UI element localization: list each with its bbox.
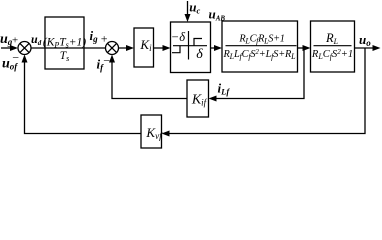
summing junction J1	[18, 42, 31, 55]
wire inner current feedback tap	[215, 48, 304, 99]
current feedback gain block K_if	[187, 80, 209, 117]
summing junction J2	[106, 42, 119, 55]
svg-text:RLCfS2+1: RLCfS2+1	[311, 48, 353, 61]
label minus at J1	[12, 51, 20, 65]
svg-text:Kif: Kif	[191, 93, 208, 108]
svg-text:−δ: −δ	[171, 30, 185, 44]
svg-text:(KPTs+1): (KPTs+1)	[43, 36, 86, 49]
arrowhead G2 to G3	[303, 45, 311, 51]
label u_g +	[0, 32, 19, 47]
label u_d	[31, 32, 42, 47]
svg-text:uAB: uAB	[209, 7, 226, 23]
svg-text:+: +	[100, 32, 108, 46]
svg-text:−: −	[12, 51, 20, 65]
wire K_if to J2 riser	[112, 61, 187, 99]
arrowhead u_of up into J1	[22, 55, 28, 63]
arrowhead into K_vf	[162, 131, 170, 137]
arrowhead i_Lf into K_if	[209, 96, 217, 102]
load transfer function block G3	[311, 21, 355, 72]
svg-text:RL: RL	[325, 31, 339, 46]
wire J2 to K_i	[84, 47, 127, 49]
svg-text:Ts: Ts	[60, 50, 70, 63]
label u_o	[359, 32, 371, 48]
svg-text:uc: uc	[189, 0, 200, 16]
label i_Lf	[218, 80, 231, 96]
label plus at J2	[100, 32, 108, 46]
svg-text:ud: ud	[31, 32, 42, 47]
svg-text:−: −	[103, 54, 111, 68]
hysteresis relay block	[171, 22, 211, 73]
svg-text:iLf: iLf	[218, 80, 231, 96]
wire J1 to PI block (fraction bar through block)	[31, 47, 84, 49]
filter transfer function block G2	[222, 21, 298, 72]
svg-text:δ: δ	[196, 47, 203, 62]
gain block K_i	[134, 28, 154, 67]
wire filter block to load block	[298, 47, 305, 49]
label i_f	[97, 57, 105, 73]
arrowhead relay to G2	[214, 45, 222, 51]
arrowhead K_i to relay	[163, 45, 171, 51]
wire K_vf to J1 riser	[25, 61, 142, 134]
svg-text:Kvf: Kvf	[145, 125, 163, 141]
svg-text:+: +	[11, 34, 18, 46]
arrowhead u_c down into relay	[185, 14, 191, 22]
svg-text:uo: uo	[359, 32, 371, 48]
label i_g	[90, 28, 99, 44]
wire outer voltage feedback tap	[168, 48, 365, 134]
svg-text:RLCfRLS+1: RLCfRLS+1	[238, 34, 284, 46]
wire relay to filter block	[211, 47, 216, 49]
arrowhead J2 to K_i	[126, 45, 134, 51]
label u_c	[189, 0, 200, 16]
svg-text:ig: ig	[90, 28, 99, 44]
label u_of	[2, 57, 18, 72]
wire input u_g	[1, 47, 13, 49]
svg-text:Ki: Ki	[139, 37, 152, 53]
voltage feedback gain block K_vf	[141, 115, 163, 148]
arrowhead into J1	[10, 45, 18, 51]
label minus at J2	[103, 54, 111, 68]
arrowhead i_f up into J2	[109, 55, 115, 63]
wire u_c top input	[187, 1, 189, 15]
wire K_i to relay	[154, 47, 165, 49]
wire output u_o	[355, 47, 375, 49]
PI regulator block G1	[43, 17, 86, 69]
arrowhead output	[373, 45, 381, 51]
svg-text:RLLfCfS2+LfS+RL: RLLfCfS2+LfS+RL	[223, 48, 297, 61]
label u_AB	[209, 7, 226, 23]
